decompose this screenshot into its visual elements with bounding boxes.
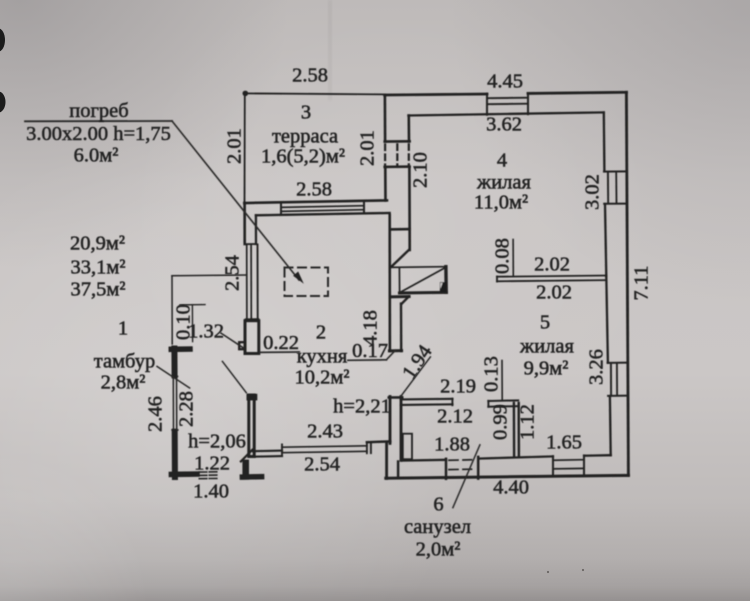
room4 west wall outer upper [384, 95, 387, 141]
east wall inner segment C [606, 277, 608, 363]
east window W2 bottom cap [608, 395, 628, 397]
svg-text:0.13: 0.13 [481, 356, 503, 392]
tambour roof thin line horizontal [172, 274, 246, 277]
svg-text:3.26: 3.26 [586, 349, 608, 385]
tambour SE pier (filled) [242, 460, 249, 480]
svg-text:2.58: 2.58 [296, 179, 332, 201]
south wall inner segment: door to bath wall [402, 459, 446, 462]
kitchen south window right pier line [370, 443, 372, 453]
bath west wall top cap [389, 396, 402, 399]
kitchen south window left cap [281, 444, 283, 454]
dim 1.32 leader [221, 333, 244, 348]
svg-text:4: 4 [497, 150, 507, 172]
svg-text:жилая: жилая [476, 172, 531, 194]
room5 west wall line 1 [513, 403, 516, 457]
south wall outer line [386, 475, 629, 478]
east window W2 side line [610, 363, 612, 395]
room4 opening dashed jamb 1 [384, 145, 386, 166]
svg-text:терраса: терраса [272, 126, 338, 148]
kitchen west pier block [245, 321, 259, 354]
bath partition end cap [451, 399, 453, 406]
svg-text:6: 6 [433, 494, 443, 516]
east wall inner segment B [605, 204, 606, 277]
svg-text:2: 2 [316, 322, 326, 344]
kitchen SW pier [249, 395, 254, 457]
kitchen east wall inner lower line [400, 304, 403, 351]
room4 opening dashed jamb 2 [396, 144, 398, 165]
terrace north thin line [245, 93, 385, 94]
dim dot at terrace NW corner [243, 91, 249, 97]
kitchen west window bottom cap [246, 318, 259, 320]
svg-text:3.62: 3.62 [486, 114, 522, 136]
paper speck 2 [582, 569, 584, 571]
svg-text:2,8м²: 2,8м² [101, 372, 146, 394]
room5 partition upper line [488, 399, 518, 402]
flue box top thin line [390, 266, 447, 269]
flue opening white notch [440, 283, 442, 289]
flue lower cap [390, 295, 409, 298]
south door left jamb [445, 459, 448, 479]
north window W-top glass line 2 [487, 103, 528, 106]
flue opening black square [440, 282, 446, 292]
south window right cap [583, 455, 585, 474]
dim 0.17 underline [348, 359, 387, 362]
tambour west wall lower [172, 432, 178, 477]
paper crease [328, 0, 332, 100]
corridor south inner line (turn west) [367, 440, 390, 443]
svg-text:2.10: 2.10 [410, 152, 432, 188]
room4 wall opening bottom cap [385, 165, 410, 168]
kitchen SW pier top cap (filled) [247, 394, 258, 401]
svg-text:2.19: 2.19 [440, 376, 476, 398]
east wall inner segment D [609, 396, 612, 455]
svg-text:0.99: 0.99 [490, 404, 512, 440]
south door right jamb [477, 457, 480, 479]
svg-text:3.00x2.00 h=1,75: 3.00x2.00 h=1,75 [26, 123, 171, 145]
tambour door threshold dashes group 1 [199, 472, 207, 479]
dim 0.17 leader tick [386, 350, 395, 360]
svg-text:3.02: 3.02 [582, 174, 604, 210]
tambour window glass line 2 [176, 377, 178, 429]
svg-text:0.17: 0.17 [352, 340, 388, 362]
north window W-top left cap [486, 94, 488, 115]
svg-text:7.11: 7.11 [631, 265, 653, 300]
kitchen west window inner thin line [257, 244, 259, 319]
room5 west wall line 2 [518, 403, 521, 457]
svg-text:6.0м²: 6.0м² [74, 145, 119, 167]
south wall inner segment: east corner to window [584, 454, 611, 457]
dim 1.94 leader [401, 357, 431, 397]
bath west wall outer line [389, 397, 392, 444]
south window glass line 2 [553, 467, 584, 470]
svg-text:2.12: 2.12 [437, 406, 473, 428]
north wall inner line [408, 112, 603, 115]
dim 0.10 top tick [180, 304, 205, 306]
kitchen big diagonal leader [222, 361, 246, 392]
svg-text:тамбур: тамбур [94, 351, 155, 373]
east window W1 glass line [615, 172, 617, 203]
north wall outer line left part [385, 94, 487, 95]
kitchen north window glass line 2 [281, 210, 364, 212]
partition 4/5 left cap [496, 277, 498, 282]
dim 0.13 extension line [501, 361, 503, 401]
flue box left line [398, 267, 400, 292]
svg-text:9,9м²: 9,9м² [524, 358, 569, 380]
kitchen west window outer thin line [246, 244, 248, 319]
kitchen west window glass line [250, 245, 252, 319]
svg-text:1.12: 1.12 [517, 404, 539, 440]
tambour label leader [157, 366, 190, 388]
south window left cap [552, 456, 554, 475]
porch chamfer diagonal [241, 450, 253, 462]
room4 west wall outer lower [384, 167, 387, 200]
kitchen south window glass line 1 [282, 446, 367, 447]
room5 partition left cap [487, 401, 489, 407]
svg-text:2.43: 2.43 [307, 421, 343, 443]
cellar leader arrowhead [293, 272, 304, 284]
svg-text:3: 3 [301, 102, 311, 124]
tambour west wall top vertical [171, 349, 177, 376]
kitchen west window top cap [245, 243, 257, 245]
tambour roof thin line vertical [171, 276, 173, 344]
svg-text:10,2м²: 10,2м² [295, 367, 350, 389]
bath pilaster duct [403, 434, 412, 460]
svg-text:2.58: 2.58 [292, 65, 328, 87]
svg-text:санузел: санузел [404, 516, 471, 538]
flue box diagonal [400, 267, 446, 292]
east window W1 side line [607, 172, 609, 203]
svg-text:2.28: 2.28 [176, 391, 198, 427]
paper speck 1 [547, 571, 549, 573]
kitchen SW step line 1 [253, 450, 282, 453]
kitchen east wall west line [388, 215, 391, 351]
cellar leader diagonal [172, 121, 299, 280]
bath north partition lower line [401, 403, 453, 406]
svg-text:1.22: 1.22 [194, 453, 230, 475]
south door threshold dash row 2 [449, 468, 472, 470]
kitchen NE cap [390, 228, 410, 231]
north window W-top right cap [527, 93, 529, 114]
dim 0.22 underline [260, 351, 299, 353]
east window W2 glass line [616, 363, 618, 395]
room4 wall opening top cap [385, 140, 410, 143]
south door threshold dash row 1 [449, 459, 472, 461]
svg-text:2.54: 2.54 [304, 454, 340, 476]
svg-text:2,0м²: 2,0м² [416, 539, 461, 561]
svg-text:2.01: 2.01 [224, 128, 246, 164]
svg-text:1.88: 1.88 [434, 434, 470, 456]
kitchen north wall top line [244, 200, 387, 203]
room4 west wall inner upper [407, 116, 410, 142]
partition 4/5 upper line [497, 276, 606, 277]
north window W-top glass line 1 [487, 97, 528, 100]
tambour window glass line 1 [172, 377, 174, 429]
bath north partition upper line [401, 398, 453, 401]
svg-text:4.40: 4.40 [493, 477, 529, 499]
kitchen NW corner inner vertical [255, 215, 257, 244]
south wall inner segment: window to door [479, 456, 554, 458]
dim 0.10 extension line [191, 305, 193, 342]
svg-text:h=2,06: h=2,06 [188, 431, 246, 453]
scan artifact: left edge blob lower [0, 92, 6, 113]
kitchen NW corner outer vertical [243, 203, 246, 244]
tambour west wall top horizontal [171, 346, 190, 352]
svg-text:2.54: 2.54 [222, 255, 244, 291]
partition 4/5 lower line [497, 280, 606, 281]
south wall small jamb at west end [397, 462, 400, 478]
east window W1 bottom cap [604, 203, 627, 205]
scan artifact: left edge blob upper [0, 29, 5, 52]
bathroom label leader [453, 445, 480, 508]
cellar hatch dashed rectangle [285, 268, 329, 297]
terrace west thin line [244, 93, 246, 203]
kitchen north window left cap [280, 203, 282, 215]
kitchen SW step line 2 [253, 455, 282, 458]
east wall outer line [626, 92, 628, 475]
room4 west wall inner line lower [408, 168, 411, 250]
svg-text:2.02: 2.02 [536, 282, 572, 304]
cellar label underline [25, 120, 172, 122]
north wall outer line right part [528, 92, 626, 93]
room5 partition lower line [488, 405, 518, 408]
svg-text:2.46: 2.46 [145, 396, 167, 432]
svg-text:кухня: кухня [297, 346, 348, 368]
svg-text:5: 5 [540, 312, 550, 334]
tambour window top cap [172, 375, 178, 377]
kitchen west pier notch [239, 342, 245, 349]
east window W2 top cap [608, 362, 628, 364]
flue box right line (thick) [444, 267, 448, 293]
svg-text:1.65: 1.65 [546, 432, 582, 454]
kitchen north window right cap [363, 201, 365, 213]
svg-text:1.32: 1.32 [188, 321, 224, 343]
tambour south wall right piece [242, 474, 261, 480]
bath west wall inner line [400, 397, 403, 461]
bath west wall outer lower [385, 442, 388, 478]
kitchen north wall bottom line [256, 213, 390, 215]
south window glass line 1 [553, 459, 584, 462]
svg-text:0.22: 0.22 [263, 332, 299, 354]
svg-text:1,6(5,2)м²: 1,6(5,2)м² [261, 146, 345, 168]
svg-text:жилая: жилая [519, 336, 574, 358]
flue chamfer upper [392, 250, 409, 266]
east window W1 top cap [604, 170, 627, 172]
svg-text:0.08: 0.08 [492, 238, 514, 274]
svg-text:1.40: 1.40 [193, 481, 229, 503]
svg-text:4.45: 4.45 [487, 71, 523, 93]
tambour window bottom cap [172, 429, 178, 431]
flue box bottom line [400, 291, 447, 295]
svg-text:20,9м²: 20,9м² [70, 233, 125, 255]
tambour door threshold dashes group 2 [209, 472, 217, 479]
kitchen south window right cap [366, 443, 368, 453]
flue chamfer lower [401, 296, 409, 304]
svg-text:37,5м²: 37,5м² [71, 279, 126, 301]
kitchen east wall end cap [389, 349, 401, 352]
svg-text:33,1м²: 33,1м² [71, 257, 126, 279]
kitchen south window glass line 2 [282, 451, 367, 452]
svg-text:2.01: 2.01 [357, 130, 379, 166]
room4 opening dashed jamb 3 [408, 144, 410, 165]
kitchen north window glass line 1 [281, 206, 364, 208]
dim 0.08 extension line [512, 240, 514, 277]
east wall inner segment A [603, 113, 606, 172]
svg-text:погреб: погреб [69, 100, 128, 122]
svg-text:1: 1 [118, 318, 128, 340]
svg-text:11,0м²: 11,0м² [474, 192, 528, 214]
svg-text:h=2,21: h=2,21 [333, 396, 391, 418]
tambour south wall piece [171, 471, 197, 477]
svg-text:2.02: 2.02 [534, 254, 570, 276]
